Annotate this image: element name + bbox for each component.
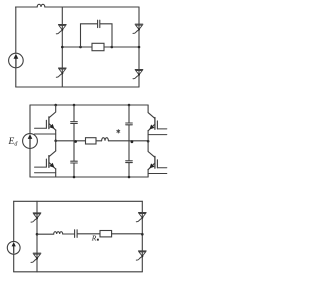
wire: bottom rail [30,176,148,178]
resistor box R2 (center) [86,138,97,144]
thyristor T6 (lower left) [33,252,41,254]
wire: top rail right segment [45,6,139,8]
svg-text:Ed: Ed [8,137,19,147]
wire: top rail [30,104,148,106]
wire: bottom rail [16,86,139,88]
node dot center wire right [147,140,150,143]
node dot at mid vertical [61,46,64,49]
wire: left vertical lower [13,255,15,272]
wire: mid horizontal right [104,46,139,48]
wire: right vertical upper [138,7,140,87]
wire: left vertical upper [15,7,17,53]
wire: left cap leg to center [73,124,75,141]
capacitor C6 (series) [74,230,76,238]
wire: top rail left segment [16,6,38,8]
node dot center cap leg right [131,140,134,143]
node dot center wire right [141,233,144,236]
wire: center between L and C [63,233,75,235]
current source I2 [7,241,20,254]
wire: mid horizontal left [62,46,92,48]
wire: left thyristor leg upper [36,201,38,271]
wire: left cap leg lower [73,141,75,161]
svg-text:R: R [91,234,97,243]
wire: right cap leg to bottom rail [128,163,130,177]
transistor Q1 (upper left) [49,105,56,118]
wire: cap branch right leg [100,24,112,47]
capacitor C4 (upper right snubber) [126,122,133,124]
wire: center wire right [108,140,148,142]
node dot at cap branch left [79,46,82,49]
thyristor T3 (upper right) [135,23,143,25]
node dot center wire left [36,233,39,236]
wire: mid vertical upper [61,7,63,87]
wire: right cap leg lower [128,141,130,160]
node dot top rail cap leg right [128,104,131,107]
thyristor T7 (upper right) [139,212,147,214]
node dot center cap leg left [74,140,77,143]
wire: left vertical lower [15,68,17,87]
wire: center after box [96,140,102,142]
wire: lower left leg from center [55,141,57,151]
resistor box R3 [100,231,112,237]
thyristor T5 (upper left) [33,212,41,214]
wire: left vertical lower [29,148,31,177]
resistor box R1 [92,43,104,50]
wire: left vertical upper [13,201,15,241]
node dot at cap branch right [111,46,114,49]
capacitor C5 (lower right snubber) [126,160,133,162]
asterisk mark [117,130,120,133]
inductor L2 (center) [102,138,109,141]
wire: center between C and R [77,233,100,235]
wire: center right segment [112,233,143,235]
wire: center wire left [56,140,86,142]
transistor Q2 (lower left) [49,151,56,157]
thyristor T2 (lower mid) [59,67,67,69]
wire: bottom rail [14,271,143,273]
transistor Q3 (upper right, mirrored) [148,105,155,118]
node dot top rail cap leg left [73,104,76,107]
transistor Q4 (lower right, mirrored) [148,141,155,157]
wire: left cap leg upper [73,105,75,121]
node dot top rail left leg [54,104,57,107]
wire: left cap leg to bottom rail [73,164,75,178]
node dot at right vertical [138,46,141,49]
thyristor T1 (upper mid) [59,24,67,26]
wire: right cap leg upper [128,105,130,123]
voltage source Ed [23,134,38,149]
inductor L3 (center) [54,232,63,234]
wire: left vertical upper [29,105,31,134]
capacitor C3 (lower left snubber) [71,160,78,162]
thyristor T8 (lower right) [139,250,147,252]
wire: top rail [14,200,143,202]
node dot bottom rail cap leg right [128,176,131,179]
wire: right vertical upper [141,201,143,271]
thyristor T4 (lower right) [135,69,143,71]
capacitor C2 (upper left snubber) [71,121,78,123]
capacitor C1 [97,20,99,27]
node dot bottom rail cap leg left [73,176,76,179]
inductor L (top rail) [37,4,45,7]
wire: right cap leg to center [128,125,130,141]
wire: center left segment [37,233,54,235]
node dot center wire left [54,140,57,143]
current source I1 [9,53,24,68]
wire: cap branch left leg [81,24,98,47]
